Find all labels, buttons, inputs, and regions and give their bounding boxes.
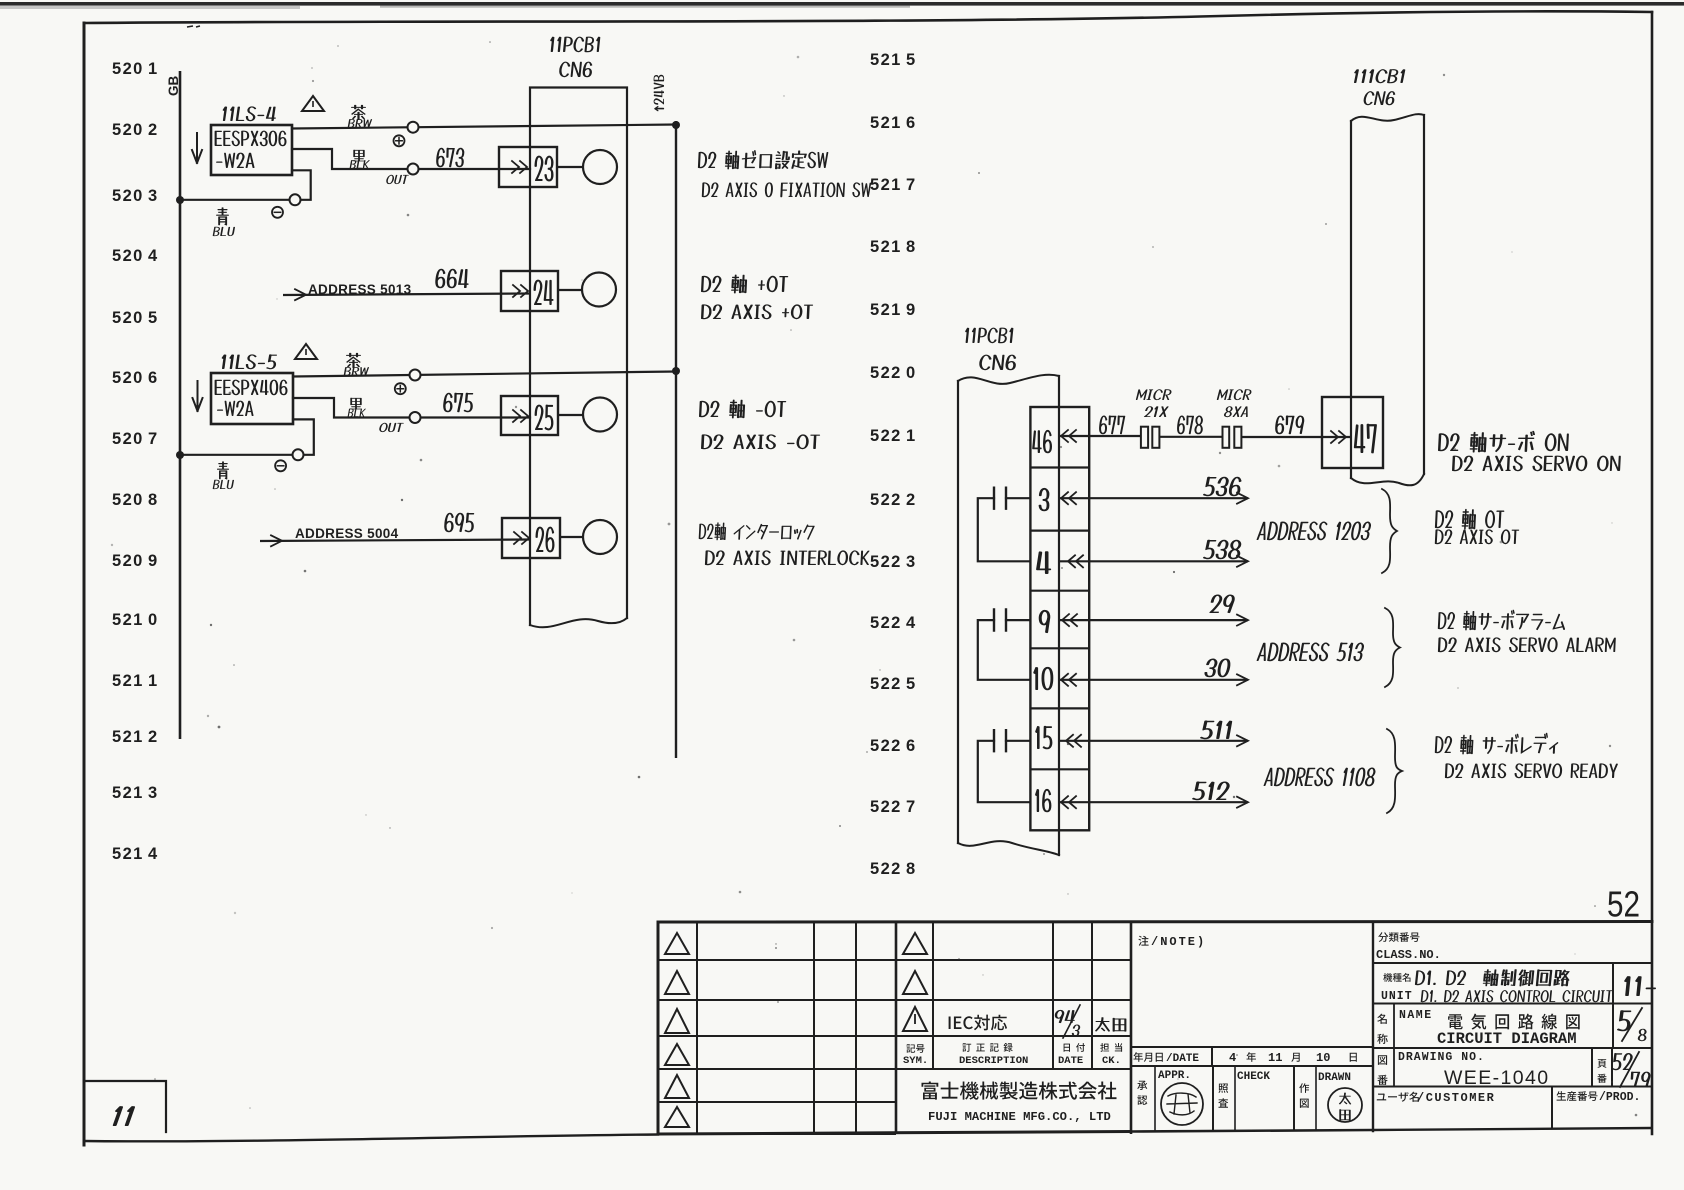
wire ADDRESS 5013 to CN6 pin 24 <box>283 294 530 296</box>
connector 111CB1 CN6 right sheet <box>1350 121 1352 478</box>
svg-text:520: 520 <box>112 552 144 570</box>
junction GB/BLU-1 <box>176 196 184 204</box>
revision header row <box>906 1044 924 1053</box>
wire 538 from pin 4 <box>1059 560 1248 562</box>
terminal circle OUT-1 <box>408 164 419 175</box>
polarity plus 2 <box>395 383 406 394</box>
label BLK-1 <box>353 150 364 162</box>
capacitor jumper pins 3-4 <box>978 498 1031 561</box>
svg-text:522: 522 <box>870 553 902 571</box>
connector pin 23 contact circle <box>557 166 583 168</box>
label D2 axis interlock <box>699 522 815 540</box>
svg-text:8: 8 <box>148 491 157 509</box>
approval row <box>1212 1066 1214 1131</box>
svg-text:5: 5 <box>906 675 915 693</box>
pin 46 label <box>1032 430 1052 453</box>
label BRW-2 <box>346 353 361 368</box>
svg-text:520: 520 <box>112 247 144 265</box>
wire number 673 <box>436 148 464 168</box>
svg-text:DESCRIPTION: DESCRIPTION <box>959 1055 1028 1067</box>
pin 10 label <box>1033 667 1053 690</box>
svg-text:3: 3 <box>906 553 915 571</box>
svg-text:0: 0 <box>148 611 157 629</box>
svg-text:520: 520 <box>112 369 144 387</box>
svg-text:522: 522 <box>870 798 902 816</box>
label D2 axis +OT <box>701 275 788 294</box>
svg-text:WEE-1040: WEE-1040 <box>1444 1067 1550 1089</box>
svg-text:10: 10 <box>1316 1051 1330 1065</box>
pin 4 label <box>1036 551 1051 574</box>
svg-text:FUJI MACHINE MFG.CO., LTD: FUJI MACHINE MFG.CO., LTD <box>928 1110 1111 1124</box>
junction +24VB/BRW-1 <box>672 121 680 129</box>
svg-text:5: 5 <box>148 309 157 327</box>
contact MICR 8XA <box>1223 427 1230 448</box>
svg-text:1: 1 <box>148 60 157 78</box>
connector pin 24 box <box>501 271 558 311</box>
wire 678 between contacts <box>1159 436 1222 438</box>
title block revision table <box>658 920 1652 924</box>
connector pin strip 46/3/4/9/10/15/16 <box>1030 407 1089 830</box>
svg-text:CK.: CK. <box>1102 1055 1121 1067</box>
svg-text:0: 0 <box>906 364 915 382</box>
svg-text:521: 521 <box>112 784 144 802</box>
svg-text:2: 2 <box>148 728 157 746</box>
svg-text:4: 4 <box>1229 1051 1236 1065</box>
svg-text:/CUSTOMER: /CUSTOMER <box>1417 1091 1495 1105</box>
svg-text:/PROD.: /PROD. <box>1599 1091 1640 1104</box>
svg-text:SYM.: SYM. <box>903 1055 928 1067</box>
drawing no box <box>1373 1086 1652 1088</box>
svg-text:52: 52 <box>1607 884 1640 925</box>
svg-text:522: 522 <box>870 364 902 382</box>
wire 677 pin46 to contact 21X <box>1059 435 1141 437</box>
svg-text:DATE: DATE <box>1058 1055 1083 1067</box>
capacitor jumper pins 9-10 <box>978 620 1031 680</box>
svg-text:/DATE: /DATE <box>1166 1053 1199 1065</box>
date row <box>1131 1065 1373 1067</box>
svg-text:521: 521 <box>112 728 144 746</box>
label D2 axis zero fixation sw <box>698 150 828 169</box>
terminal circle BLU-2 <box>293 449 304 460</box>
label D2 axis -OT <box>699 400 786 419</box>
brace 1203 <box>1382 489 1397 573</box>
pin 3 label <box>1039 488 1050 511</box>
svg-text:9: 9 <box>148 552 157 570</box>
limit switch 11LS-4 body EESPX306-W2A <box>211 125 292 175</box>
label BRW-1 <box>351 105 366 120</box>
connector pin 25 contact circle <box>558 414 583 416</box>
svg-text:521: 521 <box>870 176 902 194</box>
svg-text:8: 8 <box>906 860 915 878</box>
svg-text:1: 1 <box>148 672 157 690</box>
wire 29 from pin 9 <box>1059 619 1248 621</box>
arrow actuator 11LS-4 <box>192 133 202 163</box>
label D2 axis servo on <box>1438 431 1569 453</box>
label D2 axis servo alarm <box>1438 610 1565 631</box>
svg-text:7: 7 <box>148 430 157 448</box>
revision triangles column 2 <box>903 933 927 954</box>
terminal circle BRW-1 <box>408 122 419 133</box>
brace 513 <box>1385 608 1400 687</box>
label ADDRESS 1108 <box>1264 768 1376 787</box>
svg-text:522: 522 <box>870 737 902 755</box>
svg-text:DRAWING NO.: DRAWING NO. <box>1398 1051 1485 1064</box>
wire number 695 <box>444 513 474 533</box>
polarity minus 2 <box>275 460 286 471</box>
svg-text:2: 2 <box>148 121 157 139</box>
svg-text:NAME: NAME <box>1399 1009 1433 1022</box>
svg-text:CLASS.NO.: CLASS.NO. <box>1376 948 1441 962</box>
connector pin 24 contact circle <box>558 289 582 291</box>
svg-text:APPR.: APPR. <box>1158 1070 1191 1082</box>
terminal circle OUT-2 <box>410 412 421 423</box>
svg-text:CIRCUIT DIAGRAM: CIRCUIT DIAGRAM <box>1437 1030 1577 1048</box>
company name FUJI MACHINE <box>922 1082 1117 1100</box>
svg-text:521: 521 <box>112 845 144 863</box>
svg-text:8: 8 <box>906 238 915 256</box>
svg-text:521: 521 <box>870 51 902 69</box>
sheet number 11 <box>113 1106 135 1126</box>
label D2 axis servo ready <box>1435 733 1559 755</box>
junction GB/BLU-2 <box>176 451 184 459</box>
svg-text:6: 6 <box>906 737 915 755</box>
brace 1108 <box>1387 729 1402 813</box>
terminal circle BLU-1 <box>290 194 301 205</box>
connector 11PCB1 CN6 right sheet band <box>957 381 959 843</box>
limit switch 11LS-5 label <box>222 354 277 369</box>
svg-text:520: 520 <box>112 187 144 205</box>
pin 16 label <box>1035 789 1051 812</box>
wire number 664 <box>435 269 468 289</box>
connector pin 26 box <box>502 518 560 558</box>
wire 512 from pin 16 <box>1059 801 1248 803</box>
svg-text:4: 4 <box>148 247 158 265</box>
svg-text:ADDRESS 5013: ADDRESS 5013 <box>308 282 412 297</box>
svg-text:ADDRESS 5004: ADDRESS 5004 <box>295 526 399 541</box>
connector pin 25 box <box>501 396 558 435</box>
wire 30 from pin 10 <box>1059 679 1248 681</box>
pin 9 label <box>1039 610 1051 633</box>
svg-text:1: 1 <box>906 427 915 445</box>
label BLU-1 <box>216 207 229 225</box>
junction +24VB/BRW-2 <box>672 367 680 375</box>
svg-text:521: 521 <box>112 672 144 690</box>
svg-text:522: 522 <box>870 675 902 693</box>
connector pin 47 box <box>1322 397 1383 468</box>
svg-text:2: 2 <box>906 491 915 509</box>
note box <box>1131 1046 1373 1048</box>
warning triangle note 1 <box>302 96 324 111</box>
page border frame <box>84 11 1652 23</box>
svg-text:6: 6 <box>148 369 157 387</box>
wire number 675 <box>443 393 473 413</box>
revision entry IEC correspondence <box>949 1015 1007 1031</box>
svg-text:520: 520 <box>112 491 144 509</box>
sheet number 11 box <box>84 1081 166 1132</box>
connector pin 26 contact circle <box>560 536 583 538</box>
polarity plus 1 <box>394 135 405 146</box>
svg-text:522: 522 <box>870 427 902 445</box>
svg-text:520: 520 <box>112 430 144 448</box>
pin 15 label <box>1035 726 1052 749</box>
label OUT-1 <box>386 175 409 184</box>
arrow actuator 11LS-5 <box>193 381 203 411</box>
svg-text:7: 7 <box>906 176 915 194</box>
svg-text:520: 520 <box>112 121 144 139</box>
svg-text:521: 521 <box>870 301 902 319</box>
wire GB vertical bus <box>179 71 182 739</box>
wire ADDRESS 5004 to CN6 pin 26 <box>260 540 530 542</box>
svg-text:7: 7 <box>906 798 915 816</box>
limit switch 11LS-4 label <box>223 106 276 121</box>
label ADDRESS 1203 <box>1257 522 1371 541</box>
svg-text:/NOTE): /NOTE) <box>1151 935 1206 949</box>
svg-text:4: 4 <box>148 845 158 863</box>
svg-text:9: 9 <box>906 301 915 319</box>
wire BLU 11LS-4 to GB <box>180 170 311 200</box>
svg-text:521: 521 <box>112 611 144 629</box>
wire BRW 11LS-4 to +24VB <box>292 125 676 129</box>
label D2 axis OT <box>1435 509 1504 530</box>
polarity minus 1 <box>272 207 283 218</box>
drawn stamp Ota <box>1328 1088 1362 1122</box>
name box circuit diagram <box>1373 1047 1652 1049</box>
svg-text:DRAWN: DRAWN <box>1318 1072 1351 1084</box>
svg-text:11: 11 <box>1268 1051 1282 1065</box>
svg-text:6: 6 <box>906 114 915 132</box>
svg-text:522: 522 <box>870 491 902 509</box>
wire 511 from pin 15 <box>1059 740 1248 742</box>
capacitor jumper pins 15-16 <box>978 741 1031 802</box>
contact MICR 21X <box>1141 427 1148 448</box>
wire BLK/OUT 11LS-4 to CN6 pin 23 <box>292 149 530 169</box>
class no box <box>1372 922 1374 1131</box>
wire BLU 11LS-5 to GB <box>180 419 314 454</box>
svg-text:522: 522 <box>870 614 902 632</box>
svg-text:520: 520 <box>112 60 144 78</box>
label BLU-2 <box>217 461 229 479</box>
warning triangle note 2 <box>295 344 317 359</box>
label ADDRESS 513 <box>1257 643 1364 662</box>
svg-text:521: 521 <box>870 114 902 132</box>
svg-text:UNIT: UNIT <box>1381 990 1413 1003</box>
connector pin 23 box <box>499 147 557 187</box>
wire BRW 11LS-5 to +24VB <box>293 372 676 377</box>
wire +24VB vertical bus <box>675 121 677 758</box>
svg-text:5: 5 <box>906 51 915 69</box>
limit switch 11LS-5 body EESPX406-W2A <box>211 373 293 424</box>
terminal circle BRW-2 <box>410 370 421 381</box>
wire BLK/OUT 11LS-5 to CN6 pin 25 <box>293 398 530 418</box>
svg-text:3: 3 <box>148 784 157 802</box>
wire 679 contact to pin47 <box>1241 436 1351 438</box>
connector 11PCB1 CN6 left sheet <box>530 88 627 626</box>
approval stamp <box>1161 1083 1203 1125</box>
svg-text:522: 522 <box>870 860 902 878</box>
unit name box <box>1373 1003 1652 1005</box>
label OUT-2 <box>379 423 404 432</box>
svg-text:521: 521 <box>870 238 902 256</box>
label BLK-2 <box>350 398 361 410</box>
svg-text:520: 520 <box>112 309 144 327</box>
revision triangles column 1 <box>665 933 689 954</box>
net +24VB label <box>654 75 665 112</box>
customer row <box>1551 1087 1553 1130</box>
wire 536 from pin 3 <box>1059 497 1248 499</box>
svg-text:CHECK: CHECK <box>1237 1071 1270 1083</box>
svg-text:4: 4 <box>906 614 916 632</box>
svg-text:3: 3 <box>148 187 157 205</box>
revision warning triangle IEC <box>903 1007 927 1031</box>
